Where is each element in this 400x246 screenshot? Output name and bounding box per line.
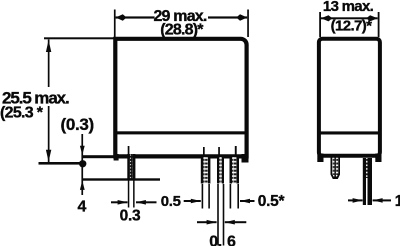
svg-text:1: 1 [395,193,400,210]
svg-text:4: 4 [78,199,87,216]
svg-text:(12.7)*: (12.7)* [331,18,373,35]
svg-text:0.: 0. [209,233,221,246]
svg-text:(28.8)*: (28.8)* [160,21,204,38]
svg-text:(25.3 *: (25.3 * [0,105,44,122]
svg-text:13 max.: 13 max. [323,0,374,15]
svg-text:6: 6 [227,233,236,246]
svg-text:0.5*: 0.5* [258,193,286,210]
svg-text:(0.3): (0.3) [60,115,93,134]
svg-text:0.3: 0.3 [120,207,141,224]
svg-text:0.5: 0.5 [161,193,181,210]
